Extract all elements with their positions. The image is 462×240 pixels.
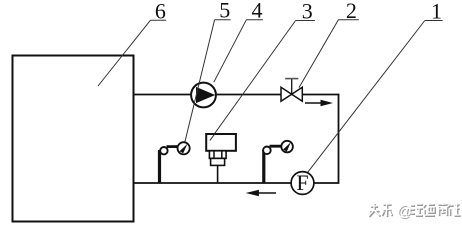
thermometer T1 elbow circle <box>160 147 167 154</box>
svg-text:2: 2 <box>346 0 357 23</box>
shadow char nuan <box>411 205 423 216</box>
flow arrow left (bottom pipe) <box>246 190 276 196</box>
leader line label 2 <box>299 20 359 88</box>
svg-text:3: 3 <box>302 0 313 24</box>
svg-text:6: 6 <box>155 0 166 23</box>
svg-text:F: F <box>296 170 308 195</box>
tank / heat exchanger box 6 <box>13 56 134 222</box>
leader line label 6 <box>98 20 166 86</box>
thermometer T1 stub <box>158 150 161 183</box>
leader line label 5 <box>185 20 231 143</box>
svg-text:1: 1 <box>431 0 442 24</box>
thermometer T2 elbow circle <box>263 147 271 155</box>
svg-text:4: 4 <box>252 0 263 22</box>
watermark toutiao embossed gray text <box>369 202 461 221</box>
wire pipe valve to corner <box>303 94 340 96</box>
thermometer T1 dial <box>178 142 190 154</box>
svg-text:5: 5 <box>219 0 230 22</box>
core char she <box>448 202 460 215</box>
wire top supply pipe <box>134 94 282 96</box>
sensor 3 controller body <box>206 134 236 183</box>
flow arrow right (after valve) <box>305 100 333 106</box>
thermometer T1 arm <box>167 145 179 148</box>
flow meter F <box>291 170 314 195</box>
core char tiao <box>382 203 392 216</box>
leader line label 3 tip inside sensor body <box>210 134 215 140</box>
core char tong <box>423 204 434 215</box>
wire bottom return pipe <box>134 182 339 184</box>
shadow char tou <box>370 204 381 217</box>
core char nan <box>438 202 448 215</box>
thermometer T2 arm <box>270 145 287 148</box>
shadow char tong <box>424 205 435 216</box>
leader line label 4 <box>214 20 263 82</box>
svg-text:@: @ <box>397 204 412 220</box>
core char tou <box>369 203 380 216</box>
leader line label 1 <box>308 21 443 173</box>
shadow char nan <box>439 203 449 216</box>
valve V body (gate valve bowtie) <box>281 87 302 101</box>
thermometer T2 stub <box>262 150 265 183</box>
leader line label 3 <box>210 21 315 141</box>
thermometer T2 dial <box>281 141 293 153</box>
core char nuan <box>410 204 422 215</box>
shadow char she <box>449 203 461 216</box>
shadow char tiao <box>383 204 393 217</box>
pump P (circle with filled triangle) <box>191 83 216 108</box>
wire right vertical pipe <box>338 94 340 184</box>
valve V stem and handle <box>285 79 298 95</box>
